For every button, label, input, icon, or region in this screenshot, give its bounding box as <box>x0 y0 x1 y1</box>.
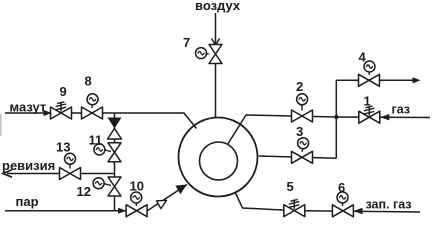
svg-text:8: 8 <box>85 74 92 89</box>
svg-text:6: 6 <box>338 180 345 195</box>
svg-text:газ: газ <box>392 103 411 117</box>
svg-text:13: 13 <box>56 140 70 155</box>
svg-text:3: 3 <box>296 124 303 139</box>
svg-text:ревизия: ревизия <box>2 158 55 173</box>
svg-text:зап. газ: зап. газ <box>366 198 412 212</box>
svg-text:5: 5 <box>287 179 294 194</box>
svg-text:4: 4 <box>359 50 367 65</box>
svg-text:воздух: воздух <box>195 0 241 13</box>
svg-text:пар: пар <box>16 194 39 209</box>
svg-text:7: 7 <box>183 35 190 50</box>
svg-text:9: 9 <box>60 84 67 99</box>
svg-text:мазут: мазут <box>10 100 47 115</box>
svg-text:11: 11 <box>89 133 103 148</box>
svg-text:12: 12 <box>77 184 91 199</box>
svg-text:2: 2 <box>296 79 303 94</box>
svg-text:10: 10 <box>130 179 144 194</box>
svg-text:1: 1 <box>364 94 371 109</box>
